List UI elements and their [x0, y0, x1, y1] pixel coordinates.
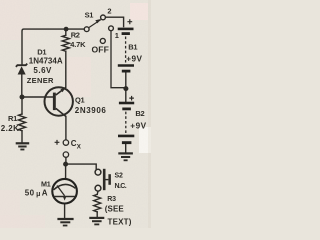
wire B2 negative to ground [125, 144, 127, 152]
svg-text:5.6V: 5.6V [33, 66, 52, 75]
svg-text:R2: R2 [71, 31, 80, 40]
svg-text:2.2K: 2.2K [1, 124, 20, 133]
ground below B2 [118, 153, 133, 160]
wire Q1 base lead from node A [22, 96, 53, 98]
ground below meter M1 [57, 219, 73, 226]
battery B1 [118, 29, 134, 73]
svg-text:Q1: Q1 [75, 96, 85, 105]
pushbutton switch S2 (normally closed) [95, 169, 111, 191]
svg-text:(SEE: (SEE [105, 204, 125, 213]
meter M1 50uA [52, 179, 77, 204]
wire node B right and down to S2 [66, 164, 97, 169]
svg-text:2N3906: 2N3906 [75, 106, 107, 115]
S1 pole contact [84, 27, 89, 32]
node B junction dot (Cx/M1/S2) [63, 162, 68, 167]
svg-text:M1: M1 [41, 180, 51, 189]
wire S1 contact 1 down and right to B1/B2 junction [111, 31, 126, 88]
svg-text:4.7K: 4.7K [70, 40, 86, 49]
wire Q1 collector down to Cx terminal [65, 117, 67, 140]
wire R1 bottom lead to ground [21, 131, 23, 143]
wire R1 top lead from node A [21, 97, 23, 114]
S1 contact position 2 [101, 15, 106, 20]
svg-text:TEXT): TEXT) [108, 218, 132, 227]
resistor R1 zigzag body [18, 114, 25, 131]
svg-text:1N4734A: 1N4734A [29, 56, 63, 65]
capacitor Cx open terminals [63, 140, 68, 145]
svg-text:B2: B2 [135, 109, 144, 118]
switch S1 [84, 15, 113, 43]
polarity plus sign for B1 [127, 19, 132, 24]
polarity plus sign for B2 [129, 96, 134, 101]
svg-text:ZENER: ZENER [27, 76, 54, 85]
wire R2 top lead from rail junction [65, 29, 67, 35]
ground below R3 [89, 218, 104, 225]
S1 wiper arm with arrowhead [89, 20, 101, 28]
junction dot R2 top on rail [64, 27, 69, 32]
transistor Q1 (PNP 2N3906) [45, 87, 73, 116]
ground below R1 [16, 143, 30, 149]
svg-text:+9V: +9V [126, 54, 142, 63]
wire R2 bottom lead to Q1 emitter [65, 51, 67, 87]
svg-text:N.C.: N.C. [115, 183, 127, 190]
wire R3 bottom lead to ground [96, 212, 98, 217]
wire Cx lower terminal to node B [65, 158, 67, 164]
resistor R3 zigzag body [94, 194, 101, 212]
svg-text:S1: S1 [85, 10, 94, 19]
S1 contact position 1 [109, 26, 114, 31]
wire S2 bottom terminal to R3 [96, 191, 99, 194]
svg-text:+9V: +9V [130, 121, 146, 130]
wire top rail from D1 column up and right to S1 pole [22, 29, 84, 65]
wire B1 negative to node to B2 positive [125, 73, 127, 102]
svg-text:S2: S2 [115, 173, 123, 180]
resistor R2 zigzag body [62, 35, 69, 51]
battery B2 [118, 103, 134, 144]
svg-text:R3: R3 [107, 196, 116, 203]
S1 contact position OFF [100, 38, 105, 43]
svg-text:2: 2 [107, 7, 111, 16]
junction dot B1/B2 [123, 86, 128, 91]
polarity plus sign for Cx [55, 140, 60, 145]
svg-text:R1: R1 [8, 114, 17, 123]
wire S1 contact 2 to battery B1 positive [105, 17, 123, 26]
svg-text:B1: B1 [128, 43, 137, 52]
wire node B down to meter M1 [65, 164, 67, 179]
wire meter M1 bottom to ground [64, 203, 66, 218]
svg-text:1: 1 [115, 31, 119, 40]
node A junction dot (D1/R1/Q1 base) [20, 95, 25, 100]
zener diode D1 [16, 64, 27, 95]
svg-text:OFF: OFF [92, 44, 109, 54]
